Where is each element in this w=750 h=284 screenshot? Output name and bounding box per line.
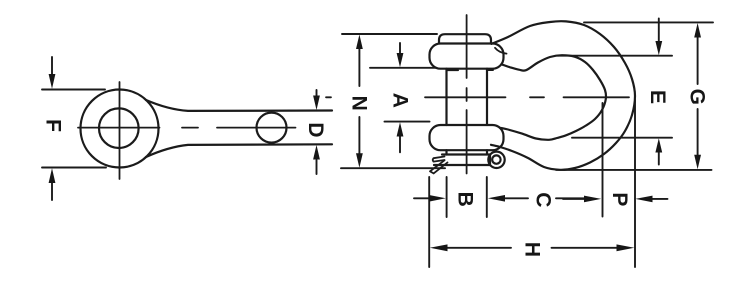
P right arrowhead [635,196,652,203]
svg-text:E: E [646,90,669,104]
dim A arrow top [399,43,401,54]
dim F extension bottom [42,167,106,169]
D arrowheads [313,96,320,111]
cotter pin band top [442,153,490,155]
B arrowheads [429,195,446,202]
H arrowheads [430,244,448,251]
svg-text:N: N [348,96,371,111]
svg-text:P: P [608,192,631,206]
pin head [439,34,491,43]
dim F arrow top [51,57,53,75]
pin shaft right [486,69,488,125]
dim B extension left [446,177,448,217]
top neck hook [495,48,507,54]
dim G extension bottom [556,169,712,171]
bow outer curve [491,21,635,170]
dim G line [697,36,699,156]
pin eye outer circle [81,90,159,168]
dim A extension bottom [385,121,430,123]
pin end stub right [486,150,488,154]
pin shaft left [445,69,447,125]
E arrowheads [655,41,662,55]
dim B/C/P line [414,197,668,200]
pin eye hole circle [99,108,139,148]
svg-text:A: A [388,93,411,108]
A arrowheads [397,53,404,67]
shaft fillet left [447,69,458,71]
dim G extension top [584,21,713,23]
pin end stub left [445,150,447,154]
svg-text:H: H [521,242,544,257]
cotter pin band right cap [489,155,491,166]
shaft fillet right [487,69,493,71]
dim B extension right [486,177,488,217]
dim E extension bottom [572,137,672,139]
svg-text:G: G [685,89,708,105]
dim H left extension [428,177,430,267]
svg-text:F: F [42,119,65,132]
dim E arrow top [658,19,660,42]
cotter ring outer [488,152,504,168]
pin shank bottom edge [146,144,332,157]
pin shank top edge [146,100,332,111]
lower ear [430,125,504,150]
dim D arrow bottom [316,160,318,174]
eye vertical centerline [119,82,121,179]
dim D arrow top [316,90,318,96]
pin tip circle [257,113,287,143]
F arrowheads [49,74,56,89]
bow inner curve [500,55,606,140]
dim C/P shared extension [602,103,604,217]
cotter split prong upper [433,157,445,162]
svg-text:D: D [304,122,327,137]
dim N line [358,48,360,154]
dim A extension top [370,67,437,69]
G arrowheads [694,23,701,38]
body horizontal centerline [326,96,629,98]
dim A arrow bottom [399,136,401,152]
dim F arrow bottom [51,182,53,200]
upper ear [430,44,504,69]
pin vertical centerline [466,15,468,174]
pin horizontal centerline [78,127,296,129]
N arrowheads [356,35,363,50]
dim N extension bottom [341,167,445,169]
dim E arrow bottom [658,152,660,165]
dim F extension top [42,89,105,91]
dim E extension top [558,55,672,57]
cotter ring inner [492,155,500,163]
svg-text:B: B [453,192,476,207]
dim N extension top [342,33,437,35]
svg-text:C: C [532,192,555,207]
C right / P left arrowhead [584,196,601,203]
dim P/H right extension [634,100,636,267]
cotter split prong lower [430,160,448,173]
cotter pin band bottom [434,164,490,166]
dim H line [447,247,617,249]
